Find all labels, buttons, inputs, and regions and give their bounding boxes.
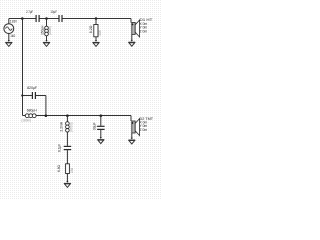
resistor R1 8.2ohm shunt xyxy=(89,19,102,42)
svg-text:2.2mH: 2.2mH xyxy=(59,121,63,131)
wire lower rail xyxy=(22,115,131,117)
svg-text:(180m): (180m) xyxy=(21,118,31,122)
svg-text:10W: 10W xyxy=(70,167,74,173)
node C junction xyxy=(95,17,98,20)
svg-text:33µF: 33µF xyxy=(92,123,96,131)
svg-text:10W: 10W xyxy=(98,30,102,36)
wire top rail xyxy=(9,18,131,20)
inductor L2 680uH series xyxy=(21,109,37,123)
ground (D1) xyxy=(128,40,135,46)
voltage source V1 2.83V xyxy=(4,19,14,42)
node D junction xyxy=(45,114,48,117)
ground (C5) xyxy=(97,137,104,143)
svg-text:Z 0m: Z 0m xyxy=(140,29,148,33)
capacitor C5 33uF shunt xyxy=(92,116,104,139)
speaker D2 TMT (woofer) xyxy=(131,119,140,139)
wire to woofer xyxy=(130,116,132,121)
svg-text:Z 0m: Z 0m xyxy=(140,128,148,132)
capacitor C3 820uF (parallel with L2) xyxy=(21,86,46,116)
inductor L3 2.2mH (series branch to ground) xyxy=(59,116,73,146)
wire drop to woofer branch xyxy=(21,19,23,116)
svg-text:820µF: 820µF xyxy=(27,86,38,90)
node F junction xyxy=(100,114,103,117)
svg-text:2.7µF: 2.7µF xyxy=(26,10,34,14)
svg-text:(200m): (200m) xyxy=(48,26,52,35)
svg-text:(470m): (470m) xyxy=(69,123,73,133)
ground (source) xyxy=(5,40,12,46)
node E junction xyxy=(66,114,69,117)
node A junction xyxy=(21,17,24,20)
capacitor C1 2.7uF xyxy=(26,10,39,22)
svg-text:8.2µF: 8.2µF xyxy=(58,144,62,152)
capacitor C2 10uF xyxy=(51,10,63,22)
svg-text:8.2Ω: 8.2Ω xyxy=(89,25,93,33)
svg-text:680µH: 680µH xyxy=(27,109,37,113)
capacitor C4 8.2uF (series branch) xyxy=(58,144,72,164)
ground (R1) xyxy=(93,40,100,46)
wire to tweeter xyxy=(130,19,132,23)
svg-text:10µF: 10µF xyxy=(51,10,58,14)
svg-text:6.8Ω: 6.8Ω xyxy=(57,165,61,172)
inductor L1 150uH shunt xyxy=(40,19,52,42)
resistor R2 6.8ohm (series branch) xyxy=(57,164,74,182)
ground (D2) xyxy=(128,138,135,144)
ground (L1) xyxy=(43,40,50,46)
svg-text:1kΩ: 1kΩ xyxy=(10,34,15,38)
svg-text:2.83V: 2.83V xyxy=(10,19,18,23)
ground (RLC branch) xyxy=(64,181,71,187)
node B junction xyxy=(45,17,48,20)
speaker D1 HT (tweeter) xyxy=(131,20,140,41)
svg-text:150µH: 150µH xyxy=(40,25,44,35)
